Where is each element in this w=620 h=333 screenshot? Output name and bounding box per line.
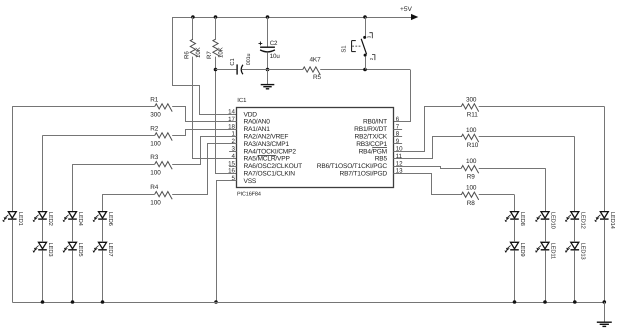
wire R11 column down <box>604 106 606 211</box>
wire ground node down <box>267 70 269 85</box>
svg-text:RB1/RX/DT: RB1/RX/DT <box>354 126 387 133</box>
resistor R10 <box>461 134 478 142</box>
resistor R3 <box>155 162 172 170</box>
svg-text:RA5/MCLR/VPP: RA5/MCLR/VPP <box>244 156 291 163</box>
capacitor C2 plus sign <box>259 42 263 46</box>
pin 7 stub <box>394 129 403 131</box>
wire bus to ground <box>604 302 606 322</box>
resistor R7 <box>213 39 221 56</box>
LED LED6 <box>93 212 115 226</box>
wire R6 to pin 4 MCLR <box>193 57 237 159</box>
ground symbol near C2 <box>261 85 275 89</box>
svg-text:100: 100 <box>150 141 161 148</box>
pin 15 stub <box>229 166 236 168</box>
junction rail/C2 <box>266 15 270 19</box>
svg-text:LED5: LED5 <box>77 243 83 257</box>
svg-text:LED14: LED14 <box>609 212 615 230</box>
wire R11 to LED column <box>479 106 605 108</box>
wire pin to R9 <box>394 167 462 169</box>
svg-text:RA7/OSC1/CLKIN: RA7/OSC1/CLKIN <box>244 171 296 178</box>
wire LED series link <box>42 220 44 243</box>
svg-text:PIC16F84: PIC16F84 <box>237 192 261 198</box>
svg-text:16: 16 <box>228 168 235 175</box>
svg-text:LED2: LED2 <box>47 212 54 226</box>
svg-text:R2: R2 <box>150 125 159 132</box>
ground bus <box>12 302 604 304</box>
svg-text:RA3/AN3/CMP1: RA3/AN3/CMP1 <box>244 141 290 148</box>
svg-text:300: 300 <box>466 96 477 103</box>
wire pin to R10 <box>394 137 462 159</box>
svg-text:R3: R3 <box>150 154 159 161</box>
svg-text:RB3/CCP1: RB3/CCP1 <box>356 141 387 148</box>
wire R4 column down <box>102 194 104 212</box>
svg-text:RA6/OSC2/CLKOUT: RA6/OSC2/CLKOUT <box>244 163 303 170</box>
svg-text:R5: R5 <box>313 74 322 81</box>
junction switch/R5 node <box>363 68 367 72</box>
junction bus <box>71 300 75 304</box>
overbar PGM <box>372 147 387 149</box>
+5V arrow <box>411 14 418 20</box>
svg-text:RB2/TX/CK: RB2/TX/CK <box>355 134 388 141</box>
svg-text:10K: 10K <box>195 46 202 58</box>
wire rail to R7 <box>215 17 217 40</box>
wire R3 left to LED column <box>73 164 155 166</box>
junction rail/S1 <box>363 15 367 19</box>
svg-text:RA1/AN1: RA1/AN1 <box>244 126 271 133</box>
switch S1 contacts and arm <box>361 36 366 57</box>
junction R7/C1 node <box>214 68 218 72</box>
svg-text:LED13: LED13 <box>579 243 586 260</box>
wire LED to bus <box>574 250 576 302</box>
wire R5 to switch bottom <box>320 69 410 71</box>
wire LED to bus <box>42 250 44 302</box>
wire pin to R8 <box>394 174 462 195</box>
wire VSS pin 5 to ground bus <box>217 181 237 303</box>
svg-text:+5V: +5V <box>400 6 413 13</box>
resistor R4 <box>155 192 172 200</box>
resistor R2 <box>155 133 172 141</box>
svg-text:LED7: LED7 <box>107 243 113 257</box>
svg-text:RB4/PGM: RB4/PGM <box>359 148 387 155</box>
wire VDD rail to pin 14 <box>173 17 237 115</box>
svg-text:IC1: IC1 <box>237 97 247 104</box>
wire LED series link <box>72 220 74 243</box>
wire R1 left to LED column <box>12 106 155 108</box>
svg-text:10K: 10K <box>218 46 225 58</box>
svg-text:100: 100 <box>466 127 477 134</box>
svg-text:R6: R6 <box>183 51 190 59</box>
junction C2/ground node <box>266 68 270 72</box>
resistor R1 <box>155 104 172 112</box>
wire LED to bus <box>72 250 74 302</box>
svg-text:LED9: LED9 <box>519 243 526 257</box>
LED LED12 <box>565 212 587 229</box>
wire pin to R11 <box>394 107 462 152</box>
junction bus <box>101 300 105 304</box>
svg-text:100: 100 <box>466 185 477 192</box>
svg-text:RB0/INT: RB0/INT <box>363 119 387 126</box>
wire R8 column down <box>514 195 516 212</box>
junction bus <box>513 300 517 304</box>
LED LED1 <box>2 212 23 226</box>
wire R2 left to LED column <box>43 135 155 137</box>
resistor R11 <box>461 104 478 112</box>
wire C1 right to R5 <box>242 69 303 71</box>
capacitor C2 <box>260 47 275 52</box>
svg-text:R10: R10 <box>467 142 479 149</box>
LED LED11 <box>535 242 556 259</box>
wire R1 to IC pin <box>172 107 236 122</box>
wire C2 to ground node <box>267 52 269 69</box>
wire rail to S1 <box>365 17 367 36</box>
ground symbol bottom right <box>597 322 612 326</box>
svg-text:100: 100 <box>150 199 161 206</box>
wire LED to bus <box>604 220 606 303</box>
wire LED series link <box>574 220 576 243</box>
svg-text:LED4: LED4 <box>77 212 83 227</box>
LED LED4 <box>63 212 84 227</box>
junction rail/R6 <box>191 15 195 19</box>
LED LED14 <box>594 212 615 230</box>
junction bus <box>573 300 577 304</box>
wire LED to bus <box>545 250 547 302</box>
wire R3 column down <box>72 164 74 212</box>
LED LED8 <box>505 212 526 226</box>
svg-text:R4: R4 <box>150 184 159 191</box>
resistor R8 <box>461 192 478 200</box>
wire R9 to LED column <box>479 168 545 170</box>
wire LED to bus <box>514 250 516 302</box>
overbar MCLR <box>258 155 276 157</box>
junction rail/R7 <box>214 15 218 19</box>
svg-text:RA2/AN2/VREF: RA2/AN2/VREF <box>244 134 289 141</box>
svg-text:001u: 001u <box>246 54 252 66</box>
resistor R9 <box>461 166 478 174</box>
wire C1 left segment <box>216 69 237 71</box>
svg-text:RA0/AN0: RA0/AN0 <box>244 119 271 126</box>
svg-text:14: 14 <box>228 109 235 116</box>
switch S1 actuator bracket <box>352 41 361 52</box>
wire R2 to IC pin <box>172 130 236 136</box>
resistor R6 <box>190 39 198 56</box>
svg-text:LED8: LED8 <box>519 212 526 226</box>
svg-text:VSS: VSS <box>244 178 257 185</box>
LED LED13 <box>565 242 587 259</box>
svg-text:LED11: LED11 <box>550 243 556 259</box>
svg-text:R11: R11 <box>467 112 478 119</box>
pin 8 stub <box>394 136 403 138</box>
wire R10 to LED column <box>479 136 575 138</box>
wire R3 to IC pin <box>172 137 236 165</box>
svg-text:C1: C1 <box>229 58 236 65</box>
wire R7 to pin 16 OSC1 <box>216 57 237 174</box>
wire R8 to LED column <box>479 194 515 196</box>
wire switch node to pin 6 RB0 <box>394 70 411 122</box>
svg-text:RB5: RB5 <box>375 156 388 163</box>
svg-text:300: 300 <box>150 112 161 119</box>
svg-text:10u: 10u <box>270 53 281 60</box>
IC IC1 PIC16F84 body <box>237 108 394 188</box>
svg-text:LED3: LED3 <box>47 243 54 257</box>
svg-text:4K7: 4K7 <box>309 57 321 64</box>
wire R10 column down <box>574 137 576 212</box>
LED LED5 <box>63 242 84 256</box>
svg-text:RB7/T1OSI/PGD: RB7/T1OSI/PGD <box>340 171 388 178</box>
wire LED series link <box>102 220 104 243</box>
wire LED to bus <box>102 250 104 302</box>
svg-text:100: 100 <box>466 158 477 165</box>
wire rail to C2 <box>267 17 269 47</box>
svg-text:S1: S1 <box>340 45 347 53</box>
wire LED to bus <box>12 220 14 303</box>
switch terminal 2 mark <box>369 55 375 61</box>
wire R4 left to LED column <box>103 194 155 196</box>
LED LED10 <box>535 212 557 229</box>
LED LED2 <box>33 212 55 226</box>
svg-text:VDD: VDD <box>244 111 258 118</box>
svg-text:R1: R1 <box>150 96 159 103</box>
junction bus <box>41 300 45 304</box>
LED LED9 <box>505 242 526 256</box>
svg-text:LED10: LED10 <box>550 212 557 229</box>
wire R4 to IC pin <box>172 144 236 195</box>
wire LED series link <box>545 220 547 243</box>
svg-text:100: 100 <box>150 169 161 176</box>
switch terminal 3 mark <box>367 33 373 39</box>
LED LED7 <box>93 242 114 256</box>
power rail +5V <box>173 17 412 19</box>
svg-text:LED12: LED12 <box>579 212 586 229</box>
wire R9 column down <box>545 168 547 212</box>
svg-text:C2: C2 <box>270 40 278 47</box>
junction bus <box>543 300 547 304</box>
svg-text:R9: R9 <box>467 173 476 180</box>
wire R1 column down <box>12 106 14 211</box>
wire LED series link <box>514 220 516 243</box>
junction VSS/bus <box>214 300 218 304</box>
svg-text:LED1: LED1 <box>17 212 23 226</box>
svg-text:R8: R8 <box>467 200 476 207</box>
wire R2 column down <box>42 135 44 211</box>
pin 9 stub <box>394 143 403 145</box>
junction bus <box>603 300 607 304</box>
wire rail to R6 <box>192 17 194 40</box>
svg-text:RA4/TOCKI/CMP2: RA4/TOCKI/CMP2 <box>244 148 297 155</box>
wire S1 bottom to node <box>365 56 367 69</box>
svg-text:R7: R7 <box>206 51 213 59</box>
resistor R5 <box>303 67 320 75</box>
svg-text:RB6/T1OSO/T1CKI/PGC: RB6/T1OSO/T1CKI/PGC <box>317 163 388 170</box>
capacitor C1 <box>237 64 243 74</box>
pin 3 stub <box>229 151 236 153</box>
svg-text:LED6: LED6 <box>107 212 114 226</box>
LED LED3 <box>33 242 55 256</box>
